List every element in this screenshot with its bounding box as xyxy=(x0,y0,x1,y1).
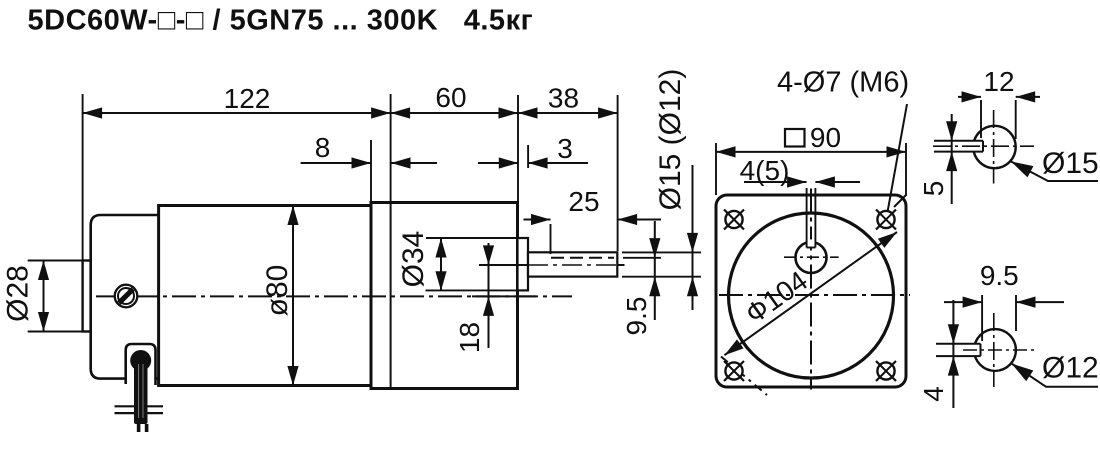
mounting screw BR xyxy=(876,361,896,381)
dimension 8 xyxy=(301,132,437,202)
dimension 12 (top detail) xyxy=(958,66,1040,139)
F104 diagonal dimension xyxy=(721,227,900,359)
shaft key flat extension line xyxy=(623,257,661,259)
svg-text:4: 4 xyxy=(918,386,949,402)
svg-text:Ø12: Ø12 xyxy=(1042,352,1099,385)
mounting screw TL xyxy=(724,210,744,230)
motor body xyxy=(159,206,371,386)
svg-text:Ø15 (Ø12): Ø15 (Ø12) xyxy=(654,69,687,211)
motor rear cover xyxy=(91,215,162,379)
dimension 122 xyxy=(83,83,391,261)
cable xyxy=(130,350,151,432)
dimension 38 xyxy=(518,83,618,252)
dimension 4 (bottom detail key) xyxy=(918,300,959,408)
svg-text:4-Ø7 (M6): 4-Ø7 (M6) xyxy=(777,67,909,99)
dimension O28 xyxy=(2,261,50,332)
svg-text:122: 122 xyxy=(224,83,271,114)
svg-text:4(5): 4(5) xyxy=(740,155,790,186)
output shaft xyxy=(528,252,617,276)
dimension 9.5 (flat to bottom) xyxy=(621,221,660,335)
svg-text:Ø28: Ø28 xyxy=(2,265,35,322)
shaft top/bottom extension lines right of tip xyxy=(622,252,701,276)
label 4-O7 (M6) with leader xyxy=(777,67,909,213)
label O15 with leader xyxy=(1008,147,1099,181)
gearbox circle F104 xyxy=(729,213,894,378)
svg-text:5DC60W-□-□ / 5GN75 ... 300K: 5DC60W-□-□ / 5GN75 ... 300K 4.5кг xyxy=(28,5,534,37)
DETAIL bottom right: O12 section xyxy=(936,313,1036,387)
dimension 5 (top detail key) xyxy=(918,114,957,204)
DETAIL top right: O15 section xyxy=(933,110,1034,184)
dimension 9.5 (bottom detail) xyxy=(944,260,1064,341)
mounting screw TR xyxy=(876,210,896,230)
svg-text:ø80: ø80 xyxy=(261,265,294,317)
svg-text:Ø34: Ø34 xyxy=(397,231,430,288)
svg-text:5: 5 xyxy=(918,181,949,197)
flange square xyxy=(716,195,906,387)
dimension 25 (key flat length) xyxy=(524,186,662,254)
svg-text:8: 8 xyxy=(315,132,331,163)
svg-text:60: 60 xyxy=(435,82,466,113)
label O12 with leader xyxy=(1008,352,1099,387)
svg-text:3: 3 xyxy=(557,133,573,164)
svg-text:9.5: 9.5 xyxy=(621,297,652,336)
front view centerlines xyxy=(719,189,910,390)
dimension 4(5) key width xyxy=(740,155,860,188)
dimension 28 cap (rear boss) xyxy=(28,261,96,332)
gearbox case xyxy=(371,203,518,389)
mounting screw BL xyxy=(724,361,744,381)
svg-text:18: 18 xyxy=(454,322,485,353)
screw head symbol on rear cover xyxy=(115,285,138,308)
svg-text:Ø15: Ø15 xyxy=(1042,147,1099,180)
output shaft centerline xyxy=(479,264,625,266)
svg-text:25: 25 xyxy=(568,186,599,217)
gearbox front boss (Ø34) xyxy=(518,238,529,290)
corner diagonal centerline BL xyxy=(721,357,767,396)
dimension o80 xyxy=(261,206,299,386)
dimension O34 xyxy=(397,231,522,291)
svg-text:12: 12 xyxy=(983,66,1014,97)
corner diagonal centerline TR xyxy=(894,195,907,208)
svg-text:38: 38 xyxy=(548,83,579,114)
motor centerline xyxy=(96,295,572,297)
svg-text:9.5: 9.5 xyxy=(980,260,1019,291)
dimension square 90 xyxy=(716,122,906,195)
dimension 3 xyxy=(478,133,588,169)
dimension 60 xyxy=(391,82,518,203)
key slot lines (front) xyxy=(807,188,816,248)
dimension O15 (O12) shaft xyxy=(654,69,698,310)
svg-text:90: 90 xyxy=(810,122,841,153)
dimension 18 (axis offset) xyxy=(454,243,494,353)
cable connector plate lines xyxy=(115,406,164,413)
front shaft circle xyxy=(796,242,827,273)
cable gland boss xyxy=(126,344,156,385)
title 5DC60W xyxy=(28,5,534,37)
